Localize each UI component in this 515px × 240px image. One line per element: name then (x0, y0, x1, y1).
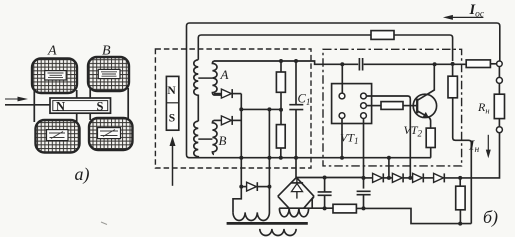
wire: rectifier output vertical (240, 94, 242, 187)
input arrow (part b) (170, 136, 176, 185)
svg-text:A: A (47, 44, 57, 59)
contact TR (361, 93, 367, 99)
chain diode 4 (434, 133, 500, 183)
diode VD-A (221, 89, 241, 98)
bridge rectifier (278, 177, 314, 208)
wire: secondary top bus (214, 61, 466, 64)
bottom resistor (333, 204, 356, 213)
magnet N-S (part b) (166, 76, 178, 130)
label A (part a) (47, 44, 57, 59)
core rail right column B (90, 88, 128, 120)
transistor VT2 (413, 64, 436, 128)
small scan mark (101, 222, 107, 225)
wire MR contact to base resistor (366, 105, 381, 107)
diode VD-B (221, 116, 241, 125)
label B (part a) (102, 44, 111, 59)
label B (transformer) (219, 133, 227, 148)
label Rn (477, 100, 490, 116)
wire: outer rail top + left + bottom bus (187, 23, 500, 158)
core rail left column A (34, 90, 76, 122)
transformer B left winding (194, 121, 199, 157)
svg-text:S: S (169, 112, 175, 124)
diode across T primary (241, 182, 269, 191)
emitter resistor (426, 128, 435, 158)
wire TL contact to top bus (341, 64, 343, 93)
transformer core (227, 222, 308, 225)
base resistor (381, 102, 416, 110)
magnet rod (5, 104, 51, 106)
filter capacitor 2 (357, 191, 371, 208)
label C1 (298, 92, 311, 108)
transformer A right winding (212, 61, 221, 95)
T primary winding (233, 187, 269, 221)
coupling capacitor on top bus (359, 58, 362, 71)
contact BL (339, 113, 345, 119)
chain diode 2 (392, 173, 412, 182)
load current arrow (486, 135, 491, 159)
wire from winding A to diode (214, 93, 222, 95)
filter capacitor 1 (318, 178, 332, 209)
dashed box 2 (amplifier unit) (323, 49, 462, 166)
diode chain wire start (364, 177, 373, 179)
chain load resistor (456, 178, 465, 224)
wire TR contact to diode chain (366, 96, 410, 178)
bridge transformer winding (279, 208, 308, 217)
label b) (483, 207, 498, 228)
wire: bridge output row (296, 177, 363, 179)
contact BR (361, 113, 367, 119)
contact TL (339, 93, 345, 99)
wire: vertical to primary of T (268, 109, 270, 186)
resistor on rail 2 (371, 31, 394, 40)
label I n (468, 139, 479, 156)
input arrow (part a) (5, 97, 28, 102)
mains secondary winding (260, 229, 296, 236)
svg-text:B: B (102, 44, 111, 59)
wire: detector output branch (241, 108, 281, 110)
wire from winding B to diode (214, 119, 222, 121)
capacitor C1 (289, 61, 303, 177)
transformer B right winding (212, 120, 217, 154)
label VT1 (340, 131, 359, 147)
label a) (75, 164, 90, 185)
load resistor Rn (494, 83, 504, 126)
hatched core block A top (32, 59, 77, 94)
feedback resistor branch (448, 64, 471, 224)
transformer A core link (198, 77, 212, 79)
wire: rail 2 (excitation supply) (198, 35, 452, 61)
feedback arrow (443, 15, 484, 20)
output terminal 3 (496, 127, 502, 133)
hatched core block B bottom (89, 118, 133, 150)
wire BR contact down to capacitor (363, 119, 365, 189)
chain diode 3 (413, 173, 434, 182)
svg-text:N: N (56, 99, 65, 113)
label I oc (469, 2, 485, 20)
svg-text:а): а) (75, 164, 90, 185)
wire: chain riser from bottom bus (388, 158, 390, 178)
T primary step wire (233, 187, 241, 213)
resistor R2 lower divider (276, 125, 285, 158)
transformer A left winding (194, 60, 199, 121)
svg-text:B: B (219, 133, 227, 148)
dashed box 1 (sensor unit) (155, 49, 311, 168)
svg-text:A: A (220, 67, 229, 82)
output terminal 2 (496, 67, 502, 84)
wire BL contact to bottom bus (341, 119, 343, 158)
transformer B core link (198, 138, 212, 140)
chain diode 1 (373, 173, 393, 182)
label VT2 (404, 123, 423, 139)
label A (transformer) (220, 67, 229, 82)
bottom rail (279, 208, 471, 223)
output terminal 1 (490, 61, 502, 67)
output series resistor (466, 60, 490, 68)
magnet N-S bar (50, 98, 111, 113)
VT1 chopper unit box (332, 84, 372, 124)
svg-text:N: N (167, 85, 176, 97)
svg-text:S: S (97, 99, 104, 113)
contact MR (361, 103, 367, 109)
hatched core block A bottom (36, 120, 80, 153)
hatched core block B top (88, 57, 129, 91)
svg-text:б): б) (483, 207, 498, 228)
resistor R1 upper divider (276, 61, 285, 125)
